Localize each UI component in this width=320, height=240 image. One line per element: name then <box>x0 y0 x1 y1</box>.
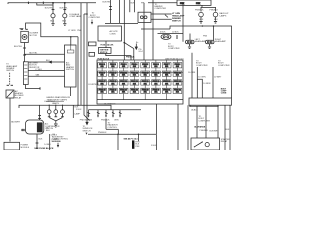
junction <box>64 2 66 4</box>
wire lamp drops <box>48 105 50 110</box>
svg-text:PNK: PNK <box>196 3 201 5</box>
svg-text:BLK: BLK <box>62 21 66 23</box>
ground left headlamp <box>188 44 191 49</box>
svg-text:COMPUTER: COMPUTER <box>168 48 180 50</box>
wire splice drop <box>138 134 140 141</box>
svg-text:LT GRN: LT GRN <box>68 30 76 32</box>
right headlamp connector <box>206 40 215 43</box>
wire blower feed loop <box>26 23 78 37</box>
svg-text:10 ORN: 10 ORN <box>188 72 196 74</box>
svg-text:ORN: ORN <box>114 120 119 122</box>
fuse block bus row1 <box>97 71 183 73</box>
svg-text:LAMPS: LAMPS <box>52 102 59 105</box>
svg-text:COMPUTER: COMPUTER <box>199 120 211 122</box>
wire main feed bus <box>8 3 96 4</box>
wire lamp ground left <box>200 17 202 21</box>
connector tick <box>109 9 112 11</box>
wire cluster v81 <box>80 3 82 106</box>
wire mid v123 <box>123 0 125 60</box>
wire arrow to dimmer <box>28 61 64 63</box>
svg-text:BLK: BLK <box>131 2 135 4</box>
wire B+ stub <box>135 44 137 48</box>
svg-text:BLK/YEL: BLK/YEL <box>45 7 54 9</box>
wire pair to junction 1 <box>151 13 172 15</box>
svg-text:BLK: BLK <box>226 129 230 131</box>
compressor body <box>26 120 44 134</box>
wire relay down <box>9 98 11 142</box>
wire lamp feed line <box>19 105 111 110</box>
connector tick <box>52 9 55 11</box>
wire v225 <box>224 105 226 150</box>
connector circles <box>140 16 143 19</box>
wire v73 <box>72 105 74 118</box>
fuse link label <box>105 41 107 48</box>
relay blade <box>194 142 202 147</box>
TEXT BLOCKS <box>6 1 230 150</box>
fuse block inner bottom <box>97 99 183 101</box>
switch blade <box>124 43 134 49</box>
connector tick <box>23 54 26 56</box>
left headlamp connector <box>186 40 195 43</box>
svg-text:PNK: PNK <box>88 120 93 122</box>
LABELS-2 <box>11 90 60 149</box>
lamp luggage compartment <box>63 14 67 18</box>
svg-text:5 BLK: 5 BLK <box>151 145 157 147</box>
wire v118 <box>117 134 119 150</box>
wire cluster v78 <box>77 37 79 106</box>
svg-text:FUSE 5 5A LINK: FUSE 5 5A LINK <box>101 43 115 46</box>
svg-text:BLK/YEL: BLK/YEL <box>60 7 69 9</box>
wire resistor bottom <box>25 85 40 89</box>
fuse block outer box <box>97 60 183 104</box>
splice bar dark <box>132 140 134 148</box>
ground dome lamp <box>51 24 54 26</box>
svg-text:MODULE: MODULE <box>21 147 30 149</box>
connector slant <box>165 15 168 18</box>
svg-text:BLK: BLK <box>214 19 218 21</box>
svg-text:COMP LAMP: COMP LAMP <box>69 15 82 18</box>
svg-text:PNK/BLK: PNK/BLK <box>126 56 135 58</box>
wire headlamp left drop <box>182 3 184 42</box>
wire dome lamp ground <box>52 18 54 23</box>
wire right v153 <box>152 0 154 60</box>
svg-text:10 ORN: 10 ORN <box>198 76 206 78</box>
svg-text:1A ORANGE: 1A ORANGE <box>104 102 116 105</box>
connector tick <box>63 9 66 11</box>
wire inline conn row <box>158 33 184 35</box>
small conn box <box>89 42 97 46</box>
svg-text:(SEE FUSE BLOCK): (SEE FUSE BLOCK) <box>165 58 184 60</box>
svg-text:COURTESY: COURTESY <box>88 84 100 86</box>
wire bottom mid bus <box>88 133 156 135</box>
ground right headlamp <box>208 44 211 49</box>
wire v155 bottom <box>156 134 158 150</box>
svg-text:BLK: BLK <box>200 19 204 21</box>
svg-text:LAMPS: LAMPS <box>220 14 227 17</box>
svg-text:BLK: BLK <box>46 130 50 132</box>
svg-text:BLK: BLK <box>50 21 54 23</box>
LABELS-1 <box>14 7 229 76</box>
wire v213 <box>212 67 214 98</box>
starter coil circle <box>205 143 209 147</box>
svg-text:LT BLU: LT BLU <box>35 69 42 71</box>
wire luggage lamp drop <box>64 3 66 14</box>
svg-text:PNK: PNK <box>77 30 82 32</box>
ground luggage lamp <box>63 24 66 26</box>
ignition switch box <box>98 48 111 54</box>
wire v230 <box>229 105 231 150</box>
wire mid v130 <box>129 0 131 12</box>
connector tick <box>109 6 112 8</box>
svg-text:BLK/YEL: BLK/YEL <box>103 1 112 3</box>
svg-text:BLK/YEL: BLK/YEL <box>29 53 38 55</box>
wire branch <box>37 3 53 5</box>
inline connector oval <box>161 34 171 39</box>
wire headlamp right drop <box>213 26 215 40</box>
wire mid v110 <box>110 0 112 23</box>
svg-text:COMPUTER: COMPUTER <box>218 65 230 67</box>
wire stub left <box>20 28 24 30</box>
svg-text:PNK: PNK <box>203 36 208 38</box>
junction tick <box>42 2 44 4</box>
svg-text:BLK: BLK <box>39 139 43 141</box>
wire ground stem <box>55 121 57 124</box>
wire right y26 <box>170 26 232 98</box>
lamp back-up right <box>213 12 218 17</box>
wire radiator line <box>106 128 118 130</box>
relay blade <box>7 91 13 98</box>
svg-text:SWITCH: SWITCH <box>100 52 108 54</box>
junction dot <box>189 106 190 107</box>
svg-text:PNK BLK: PNK BLK <box>80 120 89 122</box>
a/c heater control switch box <box>65 45 77 87</box>
svg-text:BLK/YEL: BLK/YEL <box>14 46 23 48</box>
wire dome lamp drop <box>52 3 54 14</box>
svg-text:10 WHT: 10 WHT <box>214 76 222 78</box>
wire cluster v87 <box>86 3 88 123</box>
svg-text:PNK/BLK: PNK/BLK <box>210 9 219 11</box>
wire compressor feed <box>39 105 41 120</box>
junction block box <box>98 26 122 41</box>
ground courtesy lamps <box>54 124 58 128</box>
svg-text:PNK/BLK: PNK/BLK <box>101 120 110 122</box>
wire right y29 <box>141 28 170 30</box>
wire branch L <box>197 79 202 98</box>
svg-text:BLK/WHT: BLK/WHT <box>210 130 220 132</box>
wire right v144 <box>143 3 145 60</box>
connector strip box <box>189 98 232 105</box>
wire back-up lamp split <box>201 7 216 11</box>
fuse block bus row2 <box>97 81 183 83</box>
svg-text:LAMP: LAMP <box>75 113 81 116</box>
svg-text:14 BLK: 14 BLK <box>44 144 51 146</box>
wire v206 <box>205 106 207 138</box>
svg-text:PNK/BLK: PNK/BLK <box>98 132 107 134</box>
junction dot <box>213 25 215 27</box>
svg-text:1A ORANGE: 1A ORANGE <box>194 126 206 129</box>
svg-text:TAN: TAN <box>35 74 39 77</box>
svg-text:5 BLK: 5 BLK <box>76 109 82 111</box>
wire control bottom <box>69 87 71 96</box>
svg-text:CONN: CONN <box>221 93 227 95</box>
svg-text:BLK: BLK <box>46 60 50 62</box>
svg-text:TIMER RELAY LAMPS: TIMER RELAY LAMPS <box>47 98 68 101</box>
connector pins <box>187 41 189 43</box>
svg-text:MOTOR: MOTOR <box>30 35 38 37</box>
wire right of module <box>49 134 51 150</box>
lamp dome <box>51 14 55 18</box>
arrowhead <box>49 61 51 63</box>
wire v188 <box>187 105 189 150</box>
junction dot <box>123 42 125 44</box>
svg-text:1A BLK: 1A BLK <box>191 108 198 111</box>
junction tick <box>27 2 29 4</box>
svg-text:PNK/BLK: PNK/BLK <box>195 9 204 11</box>
svg-text:CONN: CONN <box>110 33 116 35</box>
svg-text:RELAY: RELAY <box>221 140 228 143</box>
wire v178 <box>177 104 179 150</box>
fuse cells <box>98 63 107 68</box>
in-line connector box <box>138 12 151 22</box>
wire lamp ground merge <box>49 118 62 121</box>
ground back-up right <box>214 22 217 24</box>
svg-text:10 BLK: 10 BLK <box>172 31 179 33</box>
junction dot <box>117 134 119 136</box>
connector tick <box>176 35 178 39</box>
wire compressor ground <box>36 134 38 149</box>
junction dot <box>217 106 218 107</box>
lamp ground ticks <box>48 114 64 117</box>
relay box <box>6 90 14 98</box>
svg-text:COMPUTER: COMPUTER <box>89 17 101 19</box>
pin arrowheads <box>88 116 122 118</box>
arrow <box>91 22 93 25</box>
blade dots <box>194 146 195 147</box>
wire mid v119 <box>119 0 121 23</box>
blower motor box <box>21 31 29 42</box>
fuse box top right <box>177 0 211 5</box>
fuse grid <box>98 60 182 100</box>
svg-text:FUSE BLOCK: FUSE BLOCK <box>98 58 110 60</box>
wire pair to junction 2 <box>151 18 172 20</box>
arrowhead sunroof <box>86 122 88 124</box>
courtesy lamp 1 <box>47 110 51 114</box>
connector tick <box>39 87 41 90</box>
svg-text:SWITCH: SWITCH <box>172 20 181 22</box>
blower resistor box <box>23 62 28 85</box>
wire relay top dashes <box>9 73 11 85</box>
connector pins row <box>87 110 121 116</box>
starter relay box <box>191 138 220 150</box>
svg-text:SWITCH: SWITCH <box>6 70 14 72</box>
wire v197 <box>196 67 198 98</box>
junction <box>52 2 54 4</box>
connector ticks relay <box>7 84 13 86</box>
wire resistor to control 2 <box>28 75 64 77</box>
wire below strip <box>190 105 218 106</box>
wire left headlamp feed <box>189 34 191 41</box>
wire v106 below <box>106 53 131 60</box>
wire v156 <box>156 104 158 134</box>
svg-text:COMPUTER: COMPUTER <box>196 65 208 67</box>
courtesy lamp 2 <box>54 110 58 114</box>
connector ticks blower <box>21 28 28 30</box>
svg-text:6 BLK: 6 BLK <box>160 31 166 33</box>
motor symbol <box>22 35 27 40</box>
svg-text:SWITCH: SWITCH <box>83 130 91 132</box>
connector tick <box>23 47 26 49</box>
svg-text:SWITCH: SWITCH <box>66 69 74 71</box>
svg-text:BLK/WHT: BLK/WHT <box>11 122 21 124</box>
wire lamp ground right <box>215 17 217 21</box>
wire mid collector <box>105 22 138 24</box>
svg-text:HEADLAMP: HEADLAMP <box>215 40 227 43</box>
wire to back-up lamps <box>201 5 203 7</box>
connector ticks <box>38 116 41 119</box>
connector tick <box>36 142 39 144</box>
courtesy lamp 3 <box>61 110 65 114</box>
lamp back-up left <box>199 12 204 17</box>
ground back-up left <box>199 22 202 24</box>
svg-text:HEADLAMP: HEADLAMP <box>195 40 207 43</box>
connector pins <box>207 41 209 43</box>
svg-text:PNK: PNK <box>180 3 185 5</box>
svg-text:RELAY: RELAY <box>15 96 22 99</box>
svg-text:SEE FUSE BLOCK: SEE FUSE BLOCK <box>34 148 54 150</box>
wire luggage lamp ground <box>64 18 66 23</box>
wire resistor to control 1 <box>28 69 64 71</box>
wire below blower <box>24 43 26 62</box>
wire cluster v84 <box>84 14 90 121</box>
svg-text:14 BLK: 14 BLK <box>51 134 58 136</box>
svg-text:MODULE: MODULE <box>52 141 61 143</box>
svg-text:PNK/BLK: PNK/BLK <box>200 130 209 132</box>
svg-text:CONTROL: CONTROL <box>108 127 119 129</box>
svg-text:PNK: PNK <box>135 146 140 148</box>
wire v197 <box>196 106 198 138</box>
clutch coil dark <box>37 122 43 132</box>
svg-text:COMPUTER: COMPUTER <box>155 8 167 10</box>
wire pin row <box>89 109 142 111</box>
svg-text:10 BRN: 10 BRN <box>203 83 211 85</box>
wire mid v136 <box>134 0 136 12</box>
svg-text:SEE A4 PG 14-0: SEE A4 PG 14-0 <box>124 138 138 141</box>
wire v218 <box>217 106 219 138</box>
connector dots <box>163 36 165 38</box>
power module box <box>4 142 20 150</box>
arrowhead <box>135 47 137 49</box>
junction dots lamps <box>49 105 64 106</box>
wire v192 <box>191 53 193 98</box>
